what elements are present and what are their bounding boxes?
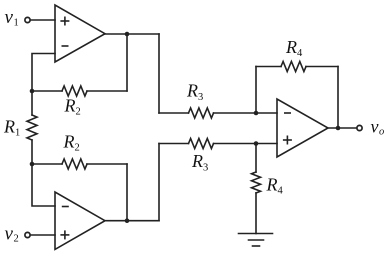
svg-text:4: 4	[297, 48, 303, 59]
svg-text:4: 4	[278, 186, 284, 197]
node	[254, 111, 259, 116]
node	[336, 126, 341, 131]
svg-text:2: 2	[75, 143, 80, 154]
label R3 (top)	[186, 81, 203, 104]
svg-text:v: v	[5, 7, 14, 28]
svg-text:R: R	[186, 81, 198, 101]
svg-text:3: 3	[203, 163, 208, 174]
terminal v2	[25, 232, 30, 237]
wire	[328, 127, 356, 129]
svg-text:R: R	[63, 132, 75, 152]
svg-text:o: o	[379, 127, 384, 138]
svg-text:R: R	[3, 117, 15, 137]
wire	[158, 144, 160, 221]
label R2 (bottom)	[63, 132, 80, 154]
svg-text:1: 1	[15, 128, 20, 139]
svg-text:R: R	[285, 37, 297, 57]
wire	[337, 67, 339, 129]
svg-text:1: 1	[14, 18, 19, 29]
terminal vo	[357, 125, 362, 130]
wire	[158, 34, 160, 113]
wire	[126, 164, 128, 221]
svg-text:2: 2	[14, 234, 19, 245]
resistor R1	[27, 91, 37, 164]
ground	[239, 234, 273, 247]
svg-text:R: R	[266, 175, 278, 195]
wire	[32, 54, 55, 92]
wire	[126, 34, 128, 91]
label R3 (bottom)	[191, 151, 208, 174]
node	[125, 218, 130, 223]
label v1	[5, 7, 19, 29]
label vo	[371, 117, 385, 138]
resistor R2 (top)	[32, 86, 127, 96]
wire	[32, 164, 55, 206]
wire	[105, 33, 159, 35]
label R2 (top)	[64, 96, 81, 118]
svg-text:v: v	[371, 117, 379, 137]
svg-text:2: 2	[76, 107, 81, 118]
op-amp U3	[277, 99, 328, 157]
terminal v1	[25, 17, 30, 22]
resistor R4 (to ground)	[252, 144, 261, 234]
label R4 (feedback)	[285, 37, 303, 59]
op-amp U2	[55, 192, 105, 249]
wire	[255, 67, 257, 114]
resistor R3 (top)	[159, 108, 277, 118]
node	[254, 141, 259, 146]
op-amp U1	[55, 5, 105, 62]
label R1	[3, 117, 20, 139]
resistor R3 (bottom)	[159, 139, 277, 149]
wire	[105, 220, 159, 222]
resistor R2 (bottom)	[32, 159, 127, 169]
svg-text:3: 3	[198, 92, 203, 103]
node	[30, 89, 35, 94]
node	[125, 32, 130, 37]
resistor R4 (feedback)	[256, 62, 338, 72]
label R4 (to ground)	[266, 175, 284, 197]
node	[30, 162, 35, 167]
wire	[31, 19, 55, 21]
label v2	[5, 224, 19, 245]
svg-text:R: R	[64, 96, 76, 116]
wire	[31, 234, 55, 236]
svg-text:v: v	[5, 224, 14, 245]
svg-text:R: R	[191, 151, 203, 171]
